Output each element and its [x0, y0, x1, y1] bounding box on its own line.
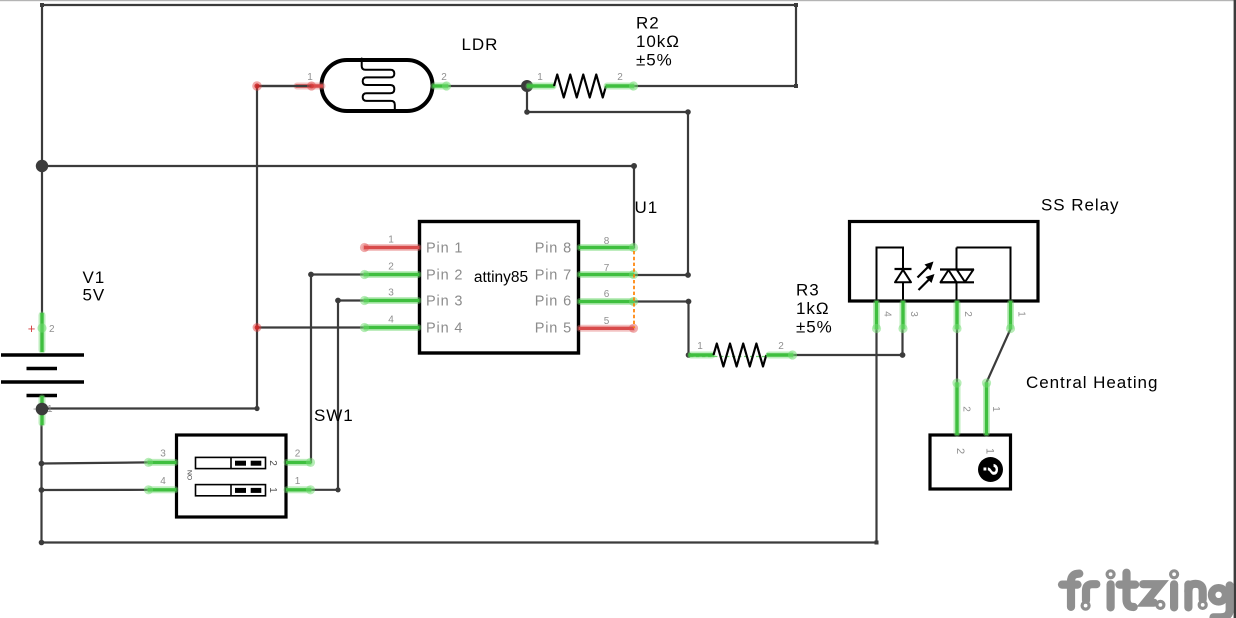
wire SW1 pin3 to left rail [42, 462, 149, 463]
wire node down from LDR junction [526, 86, 528, 112]
bendpoint pin7 wire [685, 272, 691, 278]
wire top rail [42, 4, 796, 6]
svg-text:7: 7 [604, 263, 610, 274]
svg-text:2: 2 [441, 72, 447, 83]
junction node battery minus [36, 403, 49, 416]
LED symbol [895, 268, 912, 270]
bendpoint SW1 pin1 wire high [335, 298, 341, 304]
V1 pin 2 (plus) lead [39, 315, 46, 350]
LDR pin 1 (red) [297, 83, 322, 90]
wire mid rail to U1 pin8 [42, 165, 634, 167]
wire drop rail to U1 pin8 [633, 166, 635, 248]
svg-text:1: 1 [537, 72, 543, 83]
svg-text:5: 5 [604, 316, 610, 327]
central heating connector [930, 373, 1158, 489]
svg-text:1: 1 [1016, 311, 1027, 317]
svg-text:4: 4 [388, 315, 394, 326]
internal wiring right [957, 248, 1011, 302]
bendpoint top-left corner [40, 3, 44, 7]
svg-text:+: + [28, 321, 36, 336]
wire vertical x688 to U1 pin7 row [687, 112, 689, 275]
wire left vertical rail V+ [41, 5, 43, 313]
wire up to relay pin3 [901, 329, 903, 355]
svg-text:Pin 7: Pin 7 [535, 268, 572, 284]
svg-text:2: 2 [617, 72, 623, 83]
wire SW1 pin2 up to U1 pin2 [311, 275, 364, 463]
svg-text:±5%: ±5% [796, 318, 833, 337]
light arrows [918, 266, 930, 278]
resistor R3 1k [689, 281, 833, 367]
bendpoint SW1 pin2 wire [308, 272, 314, 278]
svg-text:LDR: LDR [462, 35, 499, 54]
svg-text:V1: V1 [83, 268, 106, 287]
DIP switch SW1 [144, 406, 354, 517]
wire to U1 pin7 [634, 274, 688, 276]
svg-text:1: 1 [388, 235, 394, 246]
svg-text:1: 1 [307, 72, 313, 83]
red node at LDR branch corner [252, 81, 262, 91]
svg-text:1: 1 [990, 406, 1001, 412]
wire vertical x257 [256, 86, 258, 409]
U1 pin 7 lead [580, 271, 632, 278]
svg-text:3: 3 [160, 449, 166, 460]
svg-text:Pin 3: Pin 3 [426, 294, 463, 310]
IC U1 attiny85 [360, 198, 658, 353]
bendpoint R2 output corner [794, 84, 798, 88]
red node at U1 pin4 junction [253, 323, 262, 332]
wire U1 pin6 to x688 [634, 300, 689, 302]
svg-text:R3: R3 [796, 281, 820, 300]
wire battery minus to x257 [42, 407, 257, 409]
SW1 switch element 1 [196, 485, 266, 496]
relay pin 2 lead [954, 303, 961, 327]
U1 pin 4 lead [366, 324, 418, 331]
svg-text:2: 2 [388, 262, 394, 273]
svg-text:2: 2 [954, 448, 966, 454]
svg-text:6: 6 [604, 289, 610, 300]
svg-text:R2: R2 [636, 14, 660, 33]
svg-text:1: 1 [984, 448, 996, 454]
wire SW1 pin4 to left rail [42, 489, 149, 491]
SW1 pin 4 lead [150, 486, 175, 493]
bendpoint pin6 wire [686, 299, 692, 305]
svg-text:±5%: ±5% [636, 51, 673, 70]
svg-text:4: 4 [882, 311, 893, 317]
bendpoint bottom-left corner [39, 540, 45, 546]
SW1 pin 2 lead [287, 459, 309, 466]
LDR pin 2 (green) [434, 83, 446, 90]
bendpoint battery wire corner [254, 406, 259, 411]
wire relay pin2 down to heating pin2 [956, 329, 958, 383]
wire bottom rail [42, 541, 877, 543]
U1 pin 5 lead (red, unrouted) [580, 325, 632, 332]
LDR photoresistor [257, 35, 498, 112]
wire SW1 pin1 to U1 pin3 [311, 301, 364, 490]
internal wiring left [877, 248, 904, 302]
svg-text:Central Heating: Central Heating [1026, 373, 1158, 392]
svg-text:ON: ON [187, 470, 194, 480]
svg-text:10kΩ: 10kΩ [636, 32, 680, 51]
U1 pin 6 lead [580, 298, 632, 305]
SW1 pin 3 lead [150, 459, 175, 466]
resistor R2 10k [527, 14, 680, 98]
SW1 pin 1 lead [287, 486, 309, 493]
screenshot top edge line [0, 0, 1236, 1]
svg-text:Pin 6: Pin 6 [535, 294, 572, 310]
wire left bottom vertical to battery minus [40, 425, 42, 543]
svg-text:U1: U1 [635, 198, 659, 217]
wire relay pin4 down [875, 329, 877, 543]
bendpoint mid rail to pin8 [631, 163, 637, 169]
screenshot right edge border [1234, 0, 1236, 618]
SW1 switch element 2 [196, 457, 266, 468]
svg-text:SS Relay: SS Relay [1041, 196, 1119, 215]
U1 pin 3 lead [366, 297, 418, 304]
svg-text:3: 3 [908, 311, 919, 317]
svg-text:Pin 8: Pin 8 [535, 241, 572, 257]
wire U1 pin4 to node [257, 326, 364, 328]
svg-text:SW1: SW1 [314, 406, 354, 425]
wire LDR pin2 to node [447, 85, 527, 87]
ratsnest U1 pin8-pin5 [633, 251, 635, 328]
svg-text:1kΩ: 1kΩ [796, 299, 830, 318]
svg-text:?: ? [979, 463, 1003, 476]
junction node LDR-R2 [521, 80, 533, 92]
U1 pin 1 lead (red, unrouted) [366, 244, 418, 251]
bendpoint R3-relay wire [900, 352, 906, 358]
wire vertical x688 down to R3 pin1 [687, 302, 689, 356]
V1 pin 1 (minus) lead [39, 398, 46, 423]
wire R2 pin2 to corner [634, 85, 796, 87]
wire R3 pin2 to relay pin3 corner [793, 354, 903, 356]
U1 pin 2 lead [366, 271, 418, 278]
wire horizontal to x688 [527, 111, 688, 113]
fritzing watermark [1062, 573, 1230, 618]
svg-text:Pin 5: Pin 5 [535, 321, 572, 337]
bendpoint x688 top [685, 109, 691, 115]
bendpoint top-right corner [794, 3, 798, 7]
heating pin 1 lead [983, 385, 990, 433]
relay pin 4 lead [873, 303, 880, 327]
svg-text:Pin 1: Pin 1 [426, 241, 463, 257]
svg-text:2: 2 [962, 311, 973, 317]
bendpoint bottom-right corner [875, 541, 879, 545]
svg-text:1: 1 [295, 476, 301, 487]
svg-text:8: 8 [604, 236, 610, 247]
svg-text:3: 3 [388, 288, 394, 299]
relay pin 1 lead [1007, 303, 1014, 327]
battery plates [1, 353, 84, 356]
battery V1 [1, 268, 105, 425]
wire right drop to R2 pin2 [795, 5, 797, 86]
wire relay pin1 diagonal to heating pin1 [987, 329, 1011, 383]
junction SW1 pin3 to rail [39, 461, 45, 467]
svg-text:2: 2 [267, 460, 278, 466]
svg-text:1: 1 [267, 487, 278, 493]
node R3 pin1 [686, 352, 692, 358]
relay pin 3 lead [900, 303, 907, 327]
svg-text:Pin 2: Pin 2 [426, 268, 463, 284]
svg-text:attiny85: attiny85 [474, 269, 528, 286]
svg-text:5V: 5V [83, 286, 106, 305]
bendpoint SW1 pin1 wire low [335, 487, 340, 492]
svg-text:2: 2 [961, 406, 972, 412]
svg-text:2: 2 [295, 449, 301, 460]
U1 pin 8 lead [580, 244, 632, 251]
svg-text:Pin 4: Pin 4 [426, 321, 463, 337]
triac symbol [956, 248, 958, 270]
svg-text:1: 1 [697, 341, 703, 352]
bendpoint below LDR junction [524, 109, 530, 115]
wire LDR pin1 branch horizontal [257, 85, 310, 87]
svg-text:2: 2 [49, 324, 55, 335]
heating pin 2 lead [954, 385, 961, 433]
junction SW1 pin4 to rail [39, 487, 45, 493]
junction node rail-left [36, 160, 48, 172]
svg-text:4: 4 [160, 476, 166, 487]
solid state relay [850, 196, 1120, 334]
svg-text:2: 2 [778, 341, 784, 352]
